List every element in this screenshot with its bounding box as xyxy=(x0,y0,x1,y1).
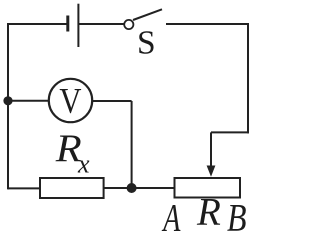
wire: voltmeter branch right xyxy=(92,100,131,102)
svg-text:R: R xyxy=(196,191,221,233)
node: junction dot bottom xyxy=(127,183,137,193)
wire: battery to switch xyxy=(78,23,123,25)
battery: short plate (negative) xyxy=(66,16,69,32)
resistor Rx: body box xyxy=(40,178,104,198)
wire: switch to top-right corner xyxy=(166,23,249,25)
rheostat slider arrowhead xyxy=(207,166,216,177)
svg-text:V: V xyxy=(59,81,81,121)
wire: voltmeter branch left xyxy=(8,100,49,102)
wire: right vertical down from top-right corner xyxy=(247,23,249,133)
wire: top-left horizontal from corner to battery xyxy=(8,23,68,25)
wire: voltmeter branch vertical down to junction xyxy=(131,101,133,188)
switch S: pivot circle xyxy=(124,20,133,29)
wire: Rx to junction to rheostat xyxy=(104,187,175,189)
svg-text:A: A xyxy=(162,197,181,232)
voltmeter V: circle xyxy=(49,79,92,122)
switch S: lever arm xyxy=(133,9,162,20)
wire: slider stem down to arrow xyxy=(210,132,212,167)
wire: left vertical main xyxy=(7,23,9,189)
node: junction dot left xyxy=(3,96,12,105)
svg-text:S: S xyxy=(137,25,156,62)
battery: long plate (positive) xyxy=(77,4,79,47)
wire: horizontal into rheostat slider xyxy=(211,131,249,133)
wire: bottom from left corner to Rx xyxy=(8,187,40,189)
svg-text:B: B xyxy=(227,196,247,232)
svg-text:x: x xyxy=(77,150,90,179)
rheostat R: body box xyxy=(175,178,241,198)
